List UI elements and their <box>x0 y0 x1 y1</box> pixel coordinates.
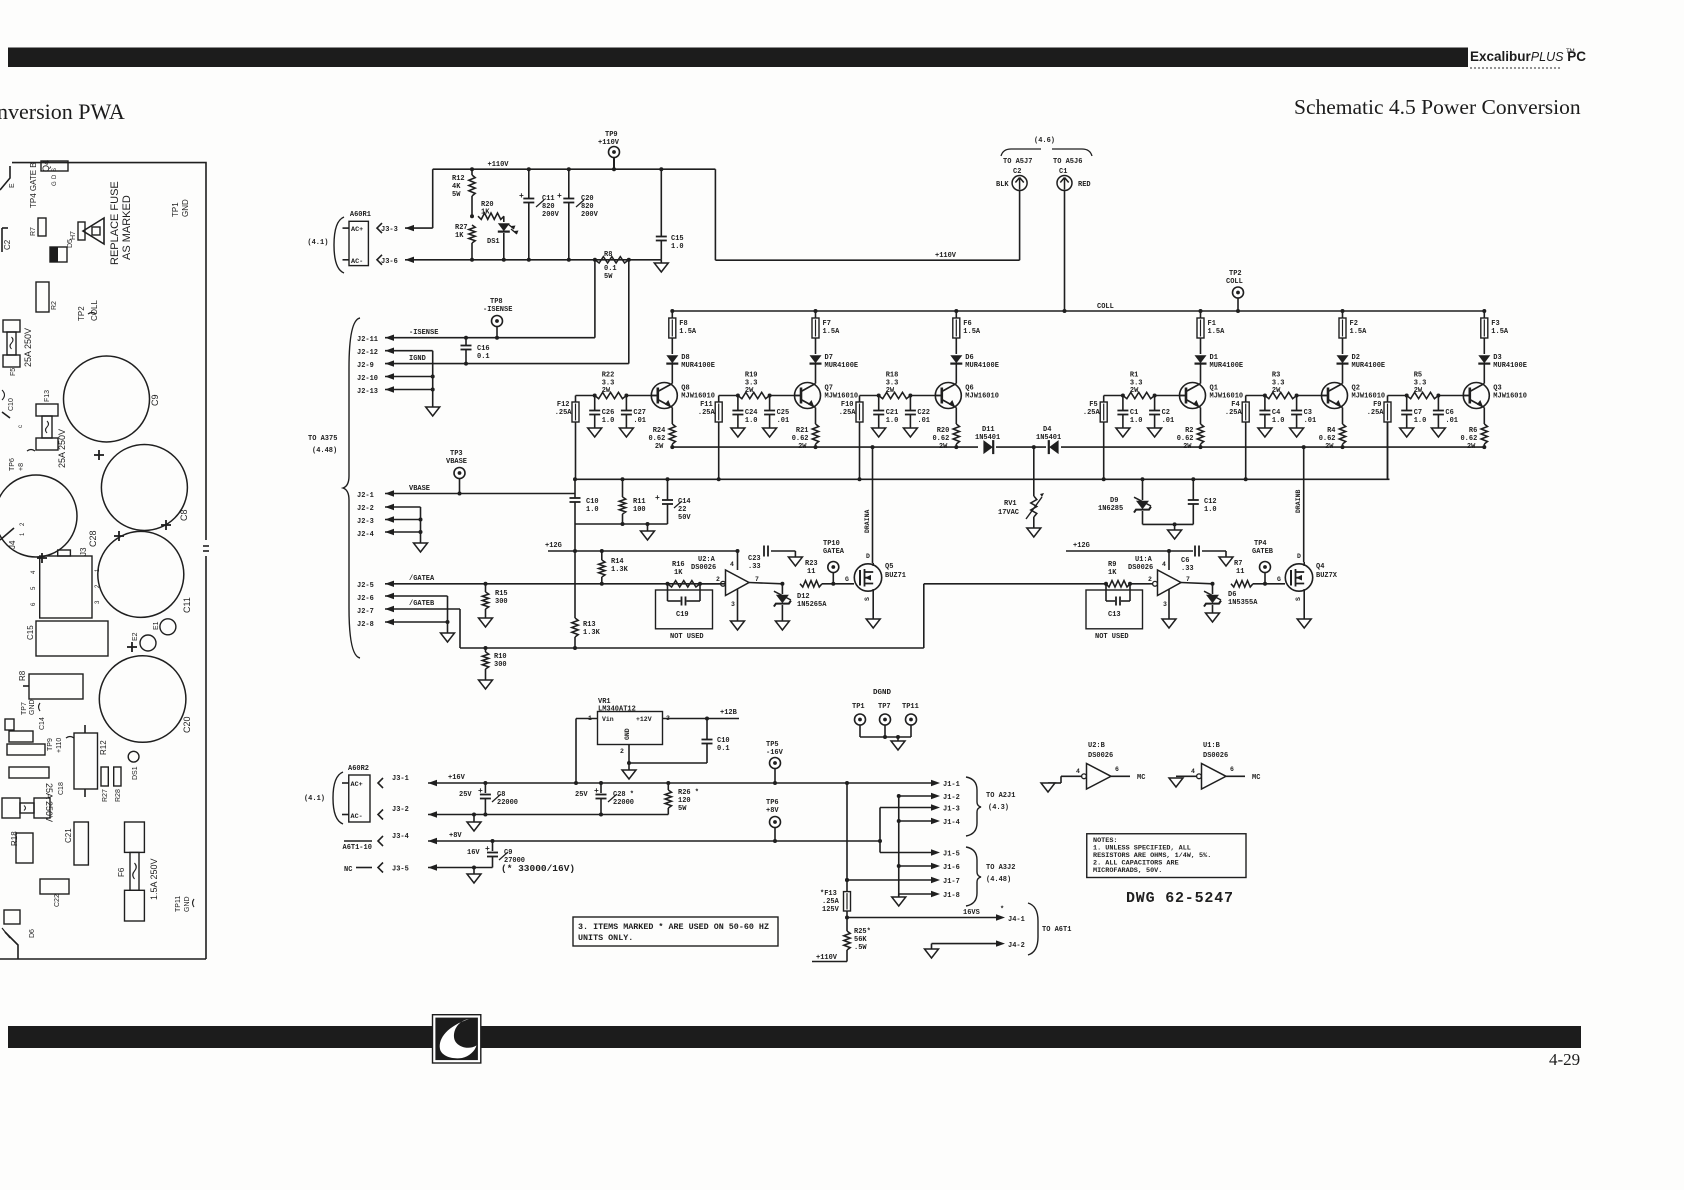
svg-text:0.1: 0.1 <box>604 265 617 273</box>
diode D4 1N5401 <box>1049 440 1058 454</box>
svg-text:TP4 GATE B: TP4 GATE B <box>29 162 38 208</box>
svg-text:D6: D6 <box>965 354 973 362</box>
svg-text:-16V: -16V <box>766 749 784 757</box>
svg-text:0.62: 0.62 <box>932 435 949 443</box>
svg-text:DS0026: DS0026 <box>1088 752 1113 760</box>
svg-text:C16: C16 <box>477 345 490 353</box>
resistor R10 300 <box>485 648 487 652</box>
svg-text:C23: C23 <box>748 555 761 563</box>
svg-text:+: + <box>519 192 524 201</box>
PCB capacitor C28 circle <box>0 475 77 557</box>
svg-text:820: 820 <box>542 203 555 211</box>
svg-text:GATEA: GATEA <box>823 548 845 556</box>
wire Q5 drain <box>872 563 874 566</box>
svg-text:2W: 2W <box>886 387 895 395</box>
svg-text:COLL: COLL <box>1097 303 1114 311</box>
ground below D6 zener <box>1206 613 1220 622</box>
resistor R2 emitter <box>1200 408 1202 425</box>
svg-text:3: 3 <box>1163 601 1167 608</box>
wire J1-1 from +16V <box>931 780 940 786</box>
capacitor C12 1.0 <box>1192 479 1194 500</box>
wire x575 column to GATEB bus <box>573 549 577 553</box>
diode D1 MUR4100E <box>1200 338 1202 354</box>
svg-text:4: 4 <box>730 561 734 568</box>
diode D7 MUR4100E <box>815 338 817 354</box>
svg-text:F9: F9 <box>1373 401 1381 409</box>
wire J1-5 <box>880 852 934 854</box>
ground below J2-4 <box>414 543 428 552</box>
svg-text:J3-5: J3-5 <box>392 866 409 874</box>
PCB fuse F13 <box>36 404 58 416</box>
svg-text:AC-: AC- <box>351 258 363 266</box>
svg-text:R15: R15 <box>495 590 508 598</box>
svg-text:1N5265A: 1N5265A <box>797 601 827 609</box>
svg-text:3: 3 <box>731 601 735 608</box>
svg-text:DS0026: DS0026 <box>1203 752 1228 760</box>
fuse F1 1.5A <box>1200 311 1202 318</box>
svg-text:R8: R8 <box>18 670 27 681</box>
svg-text:25V: 25V <box>459 791 472 799</box>
svg-text:1K: 1K <box>455 232 464 240</box>
svg-text:MJW16010: MJW16010 <box>965 393 999 401</box>
transistor Q3 MJW16010 <box>1463 383 1489 409</box>
PCB J3 connector <box>40 556 92 618</box>
ground below C15 <box>660 260 662 263</box>
bottom footer bar <box>8 1026 1581 1048</box>
svg-text:1.0: 1.0 <box>671 243 684 251</box>
svg-text:D12: D12 <box>797 593 810 601</box>
svg-text:J2-13: J2-13 <box>357 388 378 396</box>
ground below RV1 <box>1027 528 1041 537</box>
svg-text:-ISENSE: -ISENSE <box>483 306 512 314</box>
bracket 4.1 for A60R1 <box>334 217 344 273</box>
svg-text:TP7: TP7 <box>878 703 891 711</box>
svg-text:C26: C26 <box>602 409 615 417</box>
svg-text:2W: 2W <box>1130 387 1139 395</box>
svg-text:4K: 4K <box>452 183 461 191</box>
svg-text:MUR4100E: MUR4100E <box>681 362 715 370</box>
svg-text:(4.3): (4.3) <box>988 804 1009 812</box>
wire +110V rail <box>433 168 716 170</box>
svg-text:3. ITEMS MARKED * ARE USED ON: 3. ITEMS MARKED * ARE USED ON 50-60 HZ <box>578 922 769 932</box>
svg-text:J2-6: J2-6 <box>357 595 374 603</box>
wire VR1 pin1 <box>576 718 598 720</box>
svg-text:R16: R16 <box>672 561 685 569</box>
svg-text:D: D <box>52 174 58 179</box>
svg-text:MUR4100E: MUR4100E <box>1493 362 1527 370</box>
svg-text:C18: C18 <box>58 782 65 795</box>
svg-text:MUR4100E: MUR4100E <box>965 362 999 370</box>
capacitor C4 1.0 <box>1264 396 1266 411</box>
svg-text:1.5A: 1.5A <box>1208 328 1226 336</box>
svg-text:TP6: TP6 <box>9 458 16 471</box>
svg-text:0.62: 0.62 <box>1177 435 1194 443</box>
svg-text:C3: C3 <box>1304 409 1312 417</box>
svg-text:1.0: 1.0 <box>745 417 758 425</box>
svg-text:16VS: 16VS <box>963 909 980 917</box>
svg-text:2: 2 <box>620 748 624 755</box>
svg-text:GND: GND <box>184 896 191 912</box>
PCB fuse F5 <box>3 320 20 332</box>
PCB C22 <box>40 879 69 894</box>
capacitor C6 .33 decoupling <box>1194 546 1196 557</box>
capacitor C27 .01 <box>625 396 627 411</box>
svg-text:MJW16010: MJW16010 <box>1352 393 1386 401</box>
svg-text:+110V: +110V <box>488 161 510 169</box>
svg-text:1N5401: 1N5401 <box>975 434 1000 442</box>
PCB Q4 area <box>41 161 68 171</box>
svg-text:(4.6): (4.6) <box>1034 137 1055 145</box>
svg-text:.01: .01 <box>633 417 646 425</box>
svg-text:22000: 22000 <box>497 799 518 807</box>
svg-text:U2:A: U2:A <box>698 556 716 564</box>
capacitor C23 .33 decoupling <box>763 546 765 557</box>
svg-text:F3: F3 <box>1491 320 1499 328</box>
capacitor C7 1.0 <box>1406 396 1408 411</box>
svg-text:F6: F6 <box>963 320 971 328</box>
resistor R14 1.3K <box>600 549 604 553</box>
svg-text:TP8: TP8 <box>490 298 503 306</box>
base network resistor R22 3.3 2W <box>576 395 595 397</box>
wire J4-2 <box>932 943 1000 945</box>
svg-text:U1:A: U1:A <box>1135 556 1153 564</box>
svg-text:R27: R27 <box>455 224 468 232</box>
svg-text:C21: C21 <box>64 828 73 843</box>
capacitor C3 .01 <box>1296 396 1298 411</box>
svg-text:TP7: TP7 <box>21 702 28 715</box>
svg-text:125V: 125V <box>822 906 840 914</box>
svg-text:J2-7: J2-7 <box>357 608 374 616</box>
fuse F13 .25A 125V <box>845 781 849 785</box>
svg-text:/GATEB: /GATEB <box>409 600 435 608</box>
svg-text:7: 7 <box>755 576 759 583</box>
svg-text:D6: D6 <box>29 929 36 938</box>
svg-text:2W: 2W <box>1414 387 1423 395</box>
svg-text:U2:B: U2:B <box>1088 742 1106 750</box>
svg-text:5W: 5W <box>452 191 461 199</box>
svg-text:DGND: DGND <box>873 689 892 697</box>
svg-text:300: 300 <box>494 661 507 669</box>
svg-text:C11: C11 <box>182 597 192 613</box>
fuse F3 1.5A <box>1483 311 1485 318</box>
resistor R16 1K <box>666 582 670 586</box>
svg-text:BLK: BLK <box>996 181 1009 189</box>
ground below R10 <box>479 680 493 689</box>
svg-text:G: G <box>52 181 58 186</box>
svg-text:C8: C8 <box>179 509 189 521</box>
svg-text:TP2: TP2 <box>77 306 86 321</box>
svg-text:G: G <box>1277 576 1281 583</box>
diode D11 1N5401 <box>983 440 992 454</box>
capacitor C8 22000 25V <box>483 781 487 785</box>
junction +8V to J1 bus <box>878 839 882 843</box>
svg-text:R25*: R25* <box>854 928 871 936</box>
svg-text:VBASE: VBASE <box>409 485 430 493</box>
svg-text:AC+: AC+ <box>351 226 363 234</box>
svg-text:R26 *: R26 * <box>678 789 699 797</box>
resistor R4 emitter <box>1342 408 1344 425</box>
svg-text:R23: R23 <box>805 560 818 568</box>
svg-text:J1-1: J1-1 <box>943 781 960 789</box>
svg-text:820: 820 <box>581 203 594 211</box>
svg-text:+: + <box>478 787 483 796</box>
PCB DS1 led <box>128 751 139 762</box>
svg-text:+110: +110 <box>56 738 63 753</box>
svg-text:C14: C14 <box>39 717 46 730</box>
wire +12G rail right <box>1066 550 1193 552</box>
svg-text:MJW16010: MJW16010 <box>1210 393 1244 401</box>
ground below C7 <box>1400 428 1414 437</box>
svg-text:R24: R24 <box>653 427 666 435</box>
wire Q5 source to ground <box>872 589 874 619</box>
PCB D6 <box>4 910 20 924</box>
svg-text:J3-6: J3-6 <box>381 258 398 266</box>
ground at J4-2 <box>925 949 939 958</box>
svg-text:R2: R2 <box>1185 427 1193 435</box>
svg-text:2W: 2W <box>602 387 611 395</box>
diode D6 MUR4100E <box>955 338 957 354</box>
notes box <box>1087 834 1246 878</box>
svg-text:DS1: DS1 <box>132 766 139 780</box>
resistor R24 emitter <box>671 408 673 425</box>
transistor Q1 MJW16010 <box>1180 383 1206 409</box>
svg-text:+8V: +8V <box>766 807 779 815</box>
wire VBASE node column <box>574 479 576 497</box>
wire J1-7 <box>845 878 849 882</box>
fuse F9 .25A base feed <box>1387 396 1389 403</box>
svg-text:C11: C11 <box>542 195 555 203</box>
svg-text:+12V: +12V <box>636 716 652 723</box>
PCB capacitor C9 <box>64 356 150 442</box>
svg-text:C15: C15 <box>26 625 35 640</box>
fuse F5 .25A base feed <box>1103 396 1105 403</box>
svg-text:GND: GND <box>624 728 631 740</box>
svg-text:2W: 2W <box>655 443 664 451</box>
svg-text:J1-8: J1-8 <box>943 892 960 900</box>
J3-6 pin <box>377 255 382 265</box>
svg-text:Vin: Vin <box>602 716 614 723</box>
capacitor C15 1.0 <box>659 167 663 171</box>
base network resistor R1 3.3 2W <box>1104 395 1123 397</box>
PCB fuse 25A bottom <box>2 798 20 818</box>
PCB C21 <box>74 822 88 865</box>
svg-text:1.3K: 1.3K <box>611 566 629 574</box>
svg-text:TP11: TP11 <box>902 703 919 711</box>
wire U2A pin3 ground <box>737 589 739 621</box>
PCB plus marks <box>94 454 104 456</box>
wire J1 bus vertical <box>897 794 901 798</box>
svg-text:F10: F10 <box>841 401 854 409</box>
ground below J1 bus <box>898 894 900 897</box>
svg-text:R1: R1 <box>1130 372 1138 380</box>
svg-text:R18: R18 <box>886 372 899 380</box>
top header bar <box>8 48 1468 68</box>
svg-text:C19: C19 <box>676 611 689 619</box>
svg-text:25A 250V: 25A 250V <box>23 328 33 367</box>
svg-text:DWG 62-5247: DWG 62-5247 <box>1126 890 1234 907</box>
svg-text:D: D <box>866 553 870 560</box>
MOSFET Q4 BUZ71 <box>1285 564 1312 591</box>
svg-text:C13: C13 <box>1108 611 1121 619</box>
wire U1:B output MC <box>1226 775 1245 777</box>
svg-text:1.0: 1.0 <box>1414 417 1427 425</box>
wire VR1 pin3 +12B <box>663 718 740 720</box>
svg-text:5W: 5W <box>604 273 613 281</box>
svg-text:C20: C20 <box>581 195 594 203</box>
wire 16VS <box>847 917 999 919</box>
svg-text:1.5A: 1.5A <box>1350 328 1368 336</box>
capacitor C20 820 200V <box>567 167 571 171</box>
svg-text:Q1: Q1 <box>1210 385 1218 393</box>
resistor R9 1K <box>1104 582 1108 586</box>
wire U2A pin4 stub <box>736 549 740 553</box>
resistor R26 120 5W <box>666 781 670 785</box>
svg-text:1.0: 1.0 <box>586 506 599 514</box>
svg-text:.01: .01 <box>1162 417 1175 425</box>
ground below C3 <box>1290 428 1304 437</box>
svg-text:R12: R12 <box>99 740 108 755</box>
svg-text:Q6: Q6 <box>965 385 973 393</box>
svg-text:50V: 50V <box>678 514 691 522</box>
svg-text:TP6: TP6 <box>766 799 779 807</box>
svg-text:C4: C4 <box>1272 409 1280 417</box>
diode D2 MUR4100E <box>1342 338 1344 354</box>
svg-text:Q2: Q2 <box>1352 385 1360 393</box>
wire DGND rail <box>859 725 861 737</box>
svg-text:J2-2: J2-2 <box>357 505 374 513</box>
ground right of C6 <box>1219 557 1233 566</box>
svg-text:AC+: AC+ <box>351 781 363 789</box>
wire U2:B output MC <box>1111 775 1130 777</box>
svg-text:TO A375: TO A375 <box>308 435 337 443</box>
svg-text:J3-4: J3-4 <box>392 833 409 841</box>
capacitor C14 22 50V <box>666 477 670 481</box>
svg-text:C28: C28 <box>88 530 98 547</box>
svg-text:C9: C9 <box>150 394 160 406</box>
svg-text:(4.48): (4.48) <box>986 876 1011 884</box>
wire emitter bus left <box>672 446 978 448</box>
svg-text:RED: RED <box>1078 181 1091 189</box>
svg-text:DS1: DS1 <box>487 238 500 246</box>
svg-text:MC: MC <box>1252 774 1260 782</box>
resistor R8 0.1 5W <box>593 258 597 262</box>
svg-text:300: 300 <box>495 598 508 606</box>
svg-text:E2: E2 <box>132 632 139 641</box>
svg-text:MUR4100E: MUR4100E <box>1352 362 1386 370</box>
wire +110V drop to C2 branch <box>714 169 716 260</box>
J3-1 pin <box>378 778 383 788</box>
svg-text:R13: R13 <box>583 621 596 629</box>
svg-text:D4: D4 <box>1043 426 1051 434</box>
svg-text:Q4: Q4 <box>41 160 51 172</box>
PCB fuse F6 <box>125 822 145 852</box>
PCB R27 R28 <box>101 767 108 786</box>
svg-text:25V: 25V <box>575 791 588 799</box>
svg-text:C6: C6 <box>1181 557 1189 565</box>
svg-text:+12G: +12G <box>1073 542 1090 550</box>
svg-text:C12: C12 <box>1204 498 1217 506</box>
svg-text:D5: D5 <box>67 239 74 248</box>
svg-text:+: + <box>655 494 660 503</box>
svg-text:H7: H7 <box>70 231 77 240</box>
PCB warning triangle replace fuse <box>83 218 104 244</box>
ground below C2 <box>1148 428 1162 437</box>
svg-text:C25: C25 <box>777 409 790 417</box>
J3-3 pin <box>377 223 382 233</box>
svg-text:DS0026: DS0026 <box>1128 564 1153 572</box>
svg-text:D2: D2 <box>1352 354 1360 362</box>
resistor R20 1K <box>470 214 474 218</box>
svg-text:+: + <box>594 787 599 796</box>
transistor Q6 MJW16010 <box>935 383 961 409</box>
svg-text:F8: F8 <box>679 320 687 328</box>
svg-text:16V: 16V <box>467 849 480 857</box>
svg-text:C2: C2 <box>1162 409 1170 417</box>
svg-text:BUZ71: BUZ71 <box>885 572 906 580</box>
transistor Q2 MJW16010 <box>1322 383 1348 409</box>
svg-text:1N6285: 1N6285 <box>1098 505 1123 513</box>
svg-text:C10: C10 <box>586 498 599 506</box>
svg-text:D7: D7 <box>825 354 833 362</box>
svg-text:COLL: COLL <box>90 300 99 321</box>
svg-text:onversion PWA: onversion PWA <box>0 99 125 124</box>
svg-text:TP1: TP1 <box>171 202 180 217</box>
svg-text:4: 4 <box>31 570 37 574</box>
svg-text:TP3: TP3 <box>450 450 463 458</box>
capacitor C10 0.1 at VR1 <box>706 719 708 740</box>
svg-text:R28: R28 <box>115 789 122 802</box>
PCB E1 E2 pads <box>160 619 176 635</box>
svg-text:J2-8: J2-8 <box>357 621 374 629</box>
svg-text:Q3: Q3 <box>1493 385 1501 393</box>
svg-text:17VAC: 17VAC <box>998 509 1019 517</box>
svg-text:TP1: TP1 <box>852 703 865 711</box>
transistor Q7 MJW16010 <box>795 383 821 409</box>
svg-text:U1:B: U1:B <box>1203 742 1221 750</box>
svg-text:MC: MC <box>1137 774 1145 782</box>
capacitor C28 22000 25V <box>599 781 603 785</box>
svg-text:1K: 1K <box>481 209 490 217</box>
svg-text:1K: 1K <box>1108 569 1117 577</box>
wire +16V <box>428 782 934 784</box>
svg-text:(4.1): (4.1) <box>304 795 325 803</box>
svg-text:0.62: 0.62 <box>1319 435 1336 443</box>
svg-text:RV1: RV1 <box>1004 500 1017 508</box>
ground right of C23 <box>788 557 802 566</box>
fuse F10 .25A base feed <box>859 396 861 403</box>
PCB capacitor C8 <box>101 445 187 531</box>
wire VBASE bottom rail <box>575 523 668 525</box>
svg-text:J4-1: J4-1 <box>1008 916 1025 924</box>
wire to Q5 gate <box>822 583 854 585</box>
svg-text:1.0: 1.0 <box>1204 506 1217 514</box>
svg-text:R7: R7 <box>1234 560 1242 568</box>
wire C2 drop <box>1019 191 1021 261</box>
wire U1A pin4 stub <box>1167 549 1171 553</box>
svg-text:Schematic 4.5 Power Conversion: Schematic 4.5 Power Conversion <box>1294 95 1581 119</box>
svg-text:+: + <box>485 845 490 854</box>
ground below VBASE rail <box>646 522 650 526</box>
svg-text:TP5: TP5 <box>766 741 779 749</box>
svg-text:R10: R10 <box>494 653 507 661</box>
svg-text:56K: 56K <box>854 936 867 944</box>
wire COLL bus <box>672 310 1484 312</box>
svg-text:F5: F5 <box>10 368 17 376</box>
svg-text:A60R1: A60R1 <box>350 211 371 219</box>
transistor Q8 MJW16010 <box>651 383 677 409</box>
svg-text:J4-2: J4-2 <box>1008 942 1025 950</box>
svg-text:1.0: 1.0 <box>602 417 615 425</box>
